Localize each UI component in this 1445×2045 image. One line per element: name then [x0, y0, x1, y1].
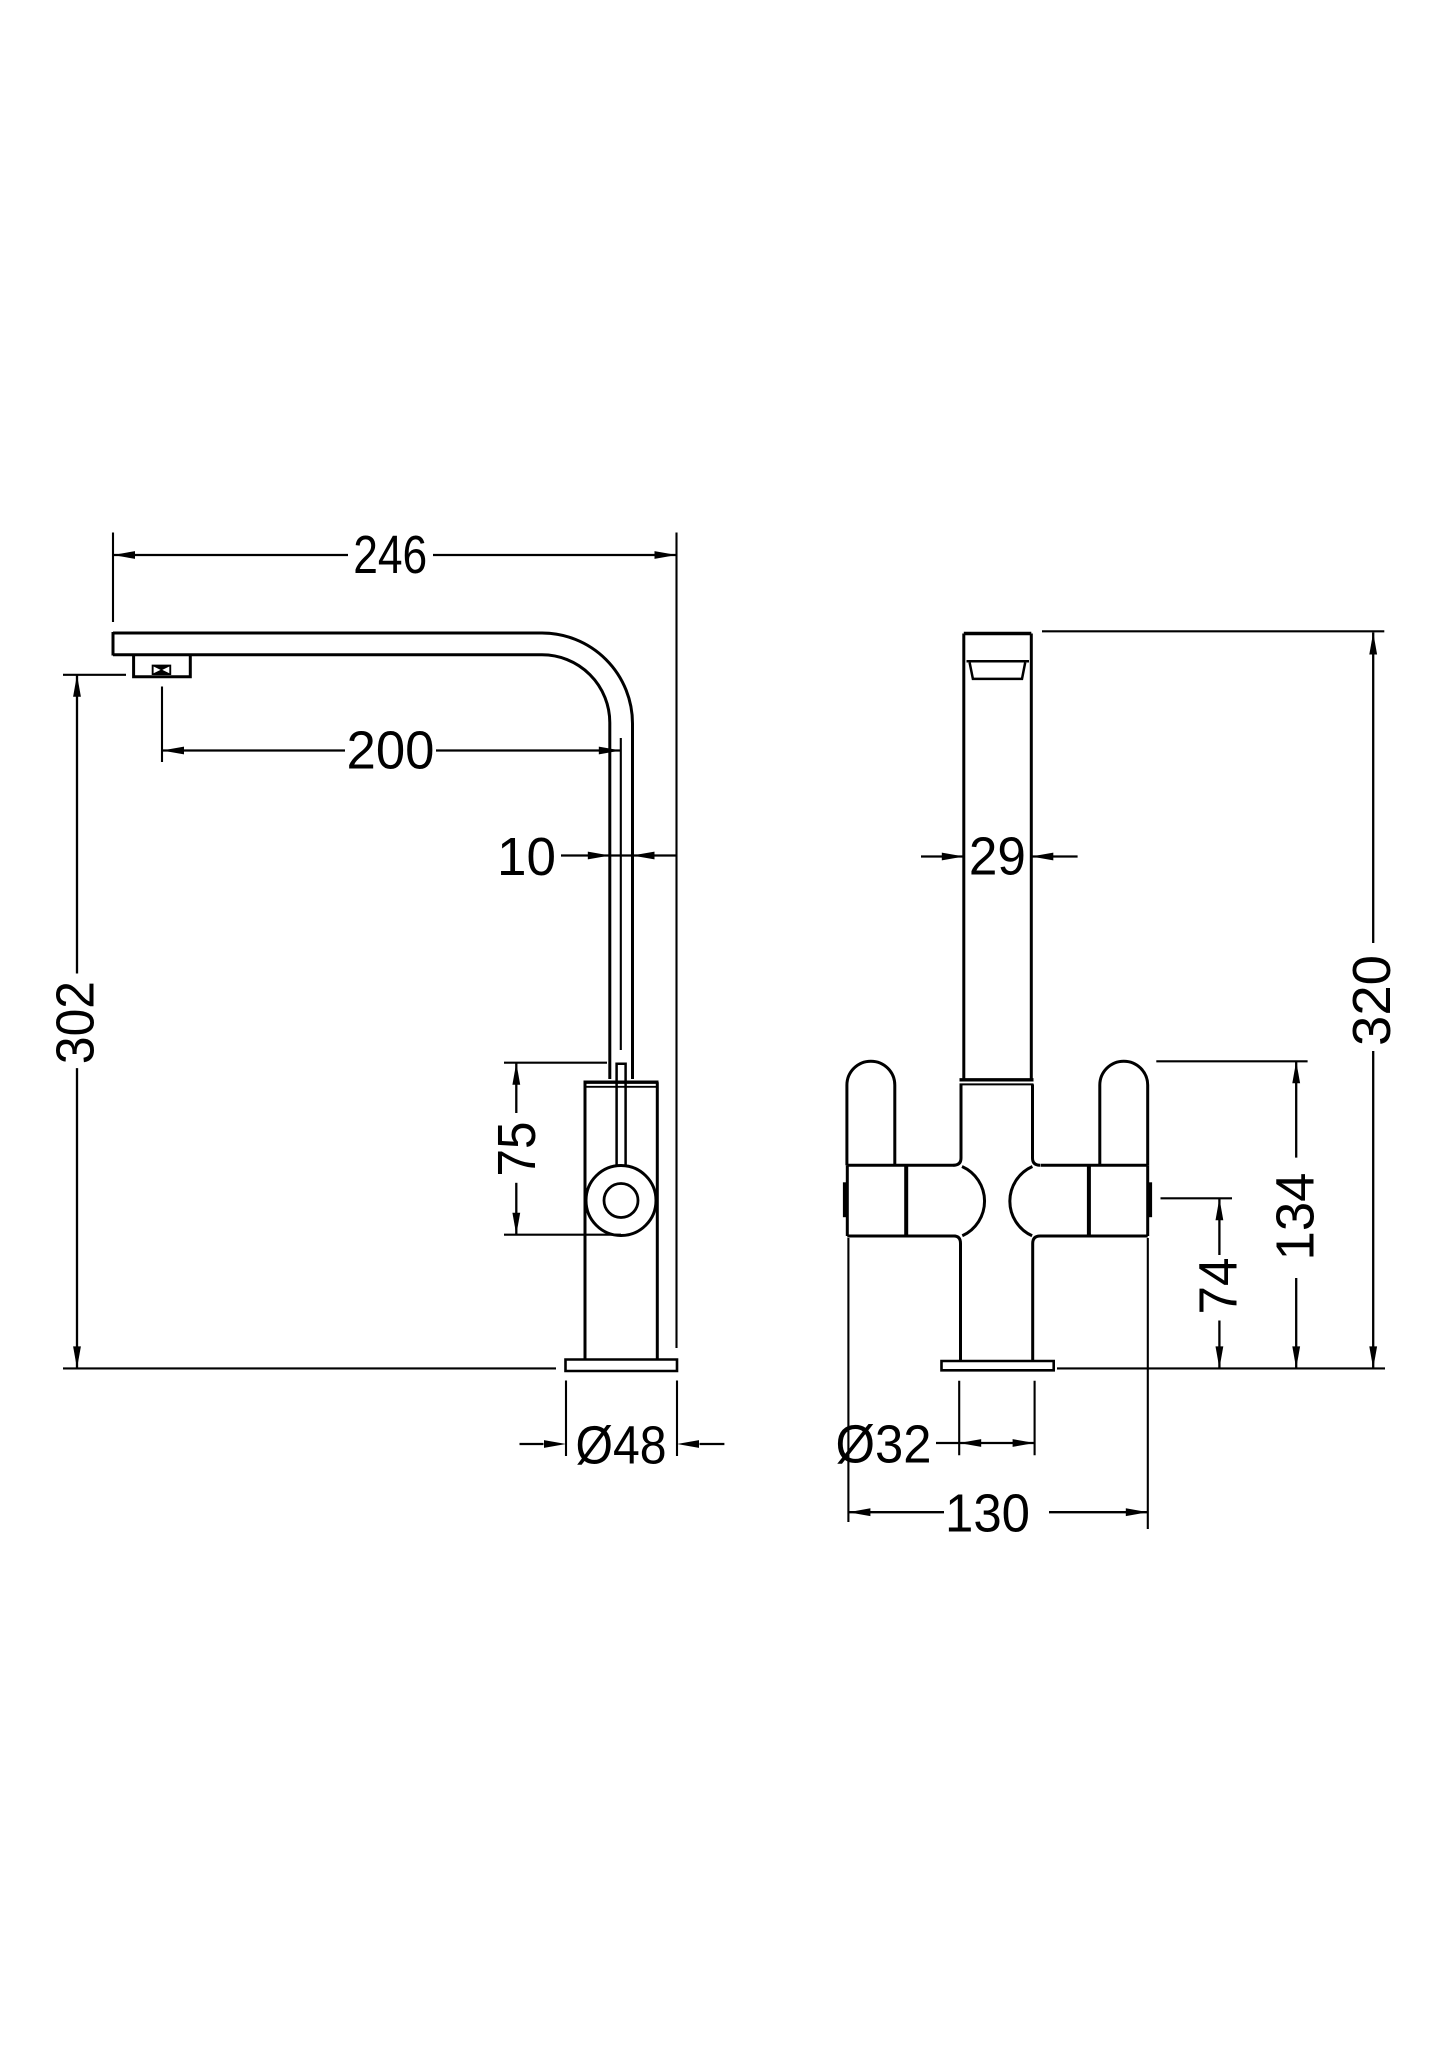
svg-text:130: 130: [945, 1484, 1030, 1544]
svg-text:74: 74: [1189, 1258, 1249, 1315]
svg-text:134: 134: [1266, 1173, 1326, 1261]
svg-text:302: 302: [46, 981, 106, 1064]
svg-text:200: 200: [347, 721, 435, 781]
svg-text:29: 29: [969, 827, 1026, 887]
svg-text:Ø48: Ø48: [576, 1416, 667, 1476]
svg-text:Ø32: Ø32: [836, 1415, 932, 1475]
svg-text:75: 75: [487, 1122, 547, 1177]
svg-text:10: 10: [497, 827, 556, 887]
svg-text:246: 246: [353, 525, 427, 585]
svg-text:320: 320: [1342, 955, 1402, 1046]
